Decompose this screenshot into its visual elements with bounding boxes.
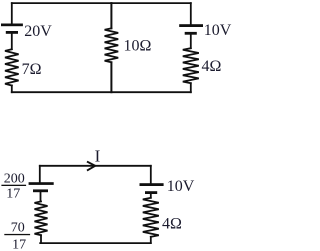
svg-text:4Ω: 4Ω	[162, 216, 182, 233]
svg-text:I: I	[95, 147, 101, 166]
wire bottom rail (top circuit)	[12, 91, 191, 93]
wire middle branch upper	[110, 3, 112, 28]
battery V1 20V top plate	[1, 24, 23, 27]
resistor 4ohm zigzag (bottom circuit)	[143, 198, 159, 237]
wire right branch between battery and resistor	[150, 194, 152, 198]
svg-text:17: 17	[12, 237, 26, 251]
wire left branch lower	[11, 86, 13, 93]
svg-text:200: 200	[4, 172, 25, 187]
wire top rail (top circuit)	[12, 2, 191, 4]
wire right branch upper (bottom circuit)	[150, 166, 152, 183]
wire left branch lower (bottom circuit)	[40, 235, 42, 243]
resistor R3 4ohm zigzag (top circuit)	[183, 48, 199, 83]
wire right branch lower (top circuit)	[190, 83, 192, 92]
wire right branch between battery and resistor	[190, 35, 192, 49]
label fraction 200/17 bar	[1, 185, 26, 186]
resistor 70/17 ohm zigzag	[35, 201, 48, 235]
svg-text:20V: 20V	[24, 23, 52, 40]
battery 10V bottom plate (bottom circuit)	[145, 191, 157, 194]
wire right branch lower (bottom circuit)	[150, 237, 152, 243]
wire bottom rail (bottom circuit)	[40, 242, 151, 244]
battery 200/17 V bottom plate	[33, 189, 48, 192]
battery 10V top plate (bottom circuit)	[140, 183, 164, 186]
wire middle branch lower	[110, 62, 112, 92]
wire left branch between battery and resistor	[11, 34, 13, 50]
battery V1 20V bottom plate	[6, 31, 18, 34]
current arrow head	[88, 162, 95, 170]
battery 200/17 V top plate	[29, 182, 54, 185]
wire right branch upper (top circuit)	[190, 3, 192, 24]
wire left branch upper (top circuit)	[11, 3, 13, 23]
svg-text:4Ω: 4Ω	[202, 58, 222, 75]
svg-text:10Ω: 10Ω	[124, 37, 152, 54]
svg-text:70: 70	[11, 220, 25, 235]
svg-text:17: 17	[6, 187, 20, 202]
battery V2 10V bottom plate (top circuit)	[185, 32, 197, 35]
wire left branch between battery and resistor	[40, 192, 42, 201]
resistor R1 7ohm zigzag	[5, 49, 19, 85]
svg-text:7Ω: 7Ω	[22, 61, 42, 78]
wire left branch upper (bottom circuit)	[39, 166, 41, 182]
svg-text:10V: 10V	[204, 22, 232, 39]
svg-text:10V: 10V	[167, 178, 195, 195]
battery V2 10V top plate (top circuit)	[179, 24, 203, 27]
label fraction 70/17 bar	[4, 234, 30, 235]
wire top rail (bottom circuit)	[40, 165, 151, 167]
resistor R2 10ohm zigzag	[105, 28, 119, 62]
